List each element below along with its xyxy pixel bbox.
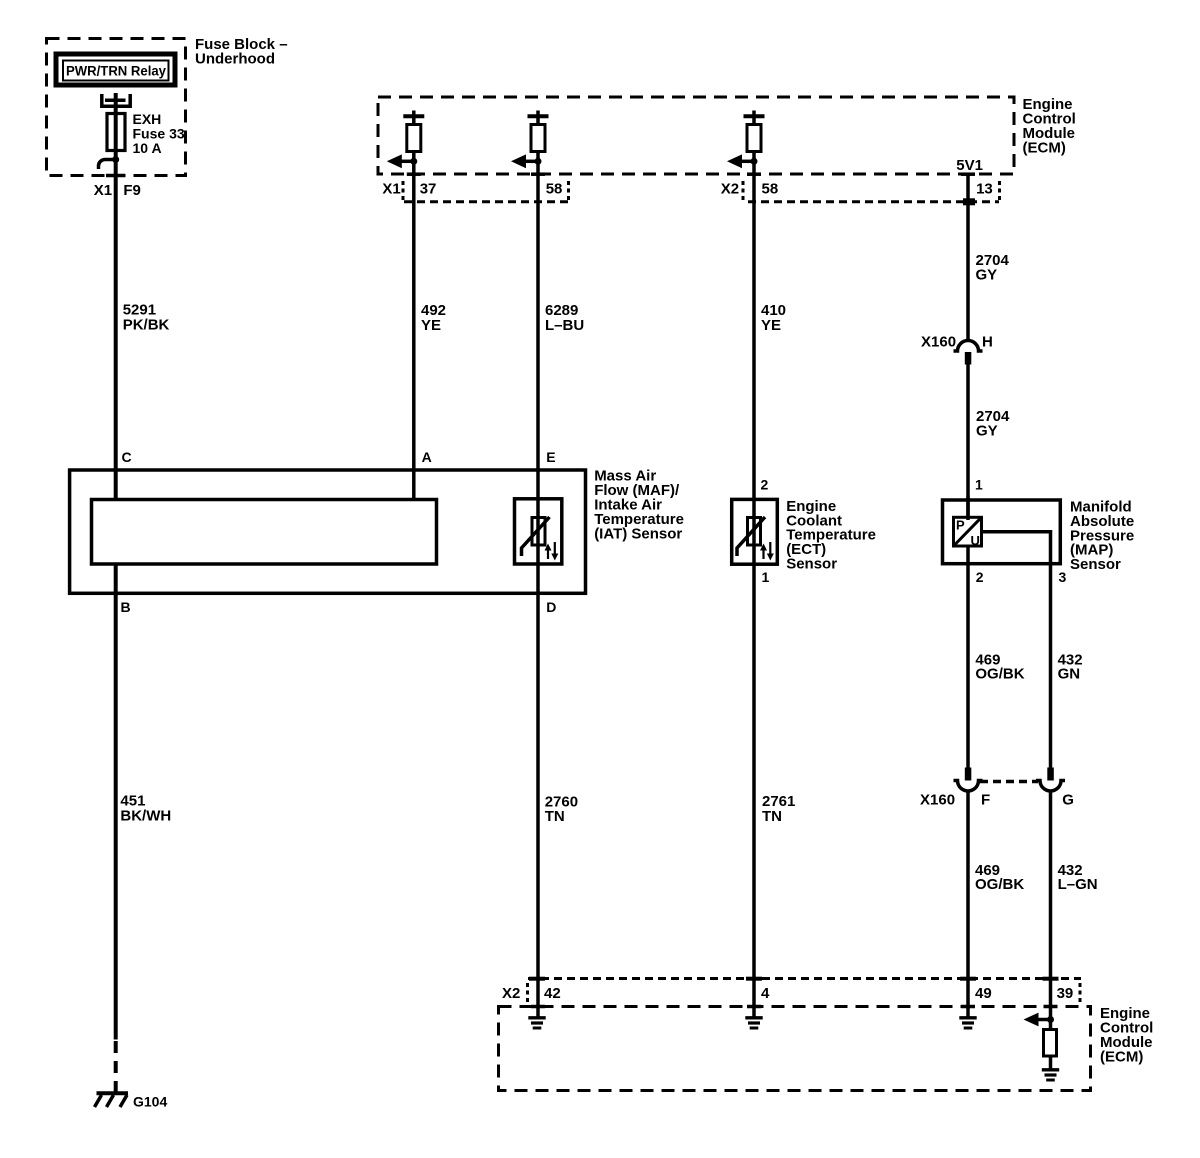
- pin 39 pull-up resistor: [1044, 1020, 1057, 1070]
- MAF pin letter C: [122, 449, 132, 465]
- ground at ECM pin 42: [528, 1018, 545, 1028]
- wire label 432 L-GN: [1058, 862, 1098, 893]
- wire dashed segment to G104: [114, 1041, 118, 1092]
- svg-text:B: B: [121, 599, 131, 615]
- MAP sensor label: [1070, 499, 1134, 574]
- junction ticks at bottom dotted line: [529, 977, 1059, 981]
- svg-text:GY: GY: [976, 423, 998, 440]
- svg-text:X2: X2: [721, 181, 739, 198]
- svg-text:4: 4: [761, 985, 770, 1002]
- wire label 469 OG/BK upper: [975, 652, 1024, 683]
- ECM bottom dashed box: [499, 1007, 1091, 1091]
- MAF pin letter D: [546, 599, 556, 615]
- connector X160 G male pin: [1047, 768, 1054, 781]
- wire 410 YE (X2-58 to ECT pin2): [752, 152, 756, 565]
- connector X160 H male pin: [965, 352, 972, 365]
- wire 2761 TN (ECT pin1 down): [752, 564, 756, 1018]
- svg-text:A: A: [422, 449, 432, 465]
- svg-text:H: H: [982, 334, 993, 351]
- wire 469 OG/BK upper (MAP pin2 to X160 F): [966, 546, 970, 768]
- fuse label EXH Fuse 33 10 A: [133, 111, 185, 156]
- wire 2704 GY lower (X160 H to MAP pin1): [966, 365, 970, 521]
- svg-text:E: E: [546, 449, 555, 465]
- svg-text:F9: F9: [123, 182, 141, 199]
- relay K1 PWR/TRN Relay: [56, 54, 175, 85]
- MAP sensor box: [943, 500, 1061, 564]
- fuse terminal T-bar: [105, 99, 126, 103]
- connector X160 dashed link F-G: [980, 780, 1038, 784]
- wire label 2704 GY: [976, 252, 1010, 284]
- svg-text:C: C: [122, 449, 132, 465]
- pin row labels X1 37 58 X2 58 13: [382, 181, 992, 198]
- wire label 2761 TN: [762, 793, 795, 825]
- svg-text:L–BU: L–BU: [545, 317, 584, 334]
- driver U1 resistor + T-bar (pin 37): [403, 111, 424, 152]
- svg-text:1: 1: [762, 569, 770, 585]
- svg-text:PWR/TRN Relay: PWR/TRN Relay: [66, 64, 166, 79]
- svg-text:49: 49: [975, 985, 992, 1002]
- wire 2760 TN (MAF D down): [536, 564, 540, 1018]
- MAP internal wire to pin 3: [983, 532, 1051, 565]
- connector X160 F male pin: [965, 768, 972, 781]
- MAF pin letter E: [546, 449, 555, 465]
- svg-text:10 A: 10 A: [133, 140, 162, 156]
- ECT pin 1 label: [762, 569, 770, 585]
- MAF sensor label: [594, 468, 684, 543]
- fuse F33 EXH body: [107, 114, 125, 151]
- MAP pin 2 label: [976, 569, 984, 585]
- svg-text:58: 58: [546, 181, 563, 198]
- ticks at ECM pin exits: [407, 172, 975, 176]
- wire label 451 BK/WH: [120, 793, 171, 825]
- ECT pin 2 label: [761, 477, 769, 493]
- ECT thermistor arrows: [760, 542, 774, 561]
- connector X160 F female arc: [954, 781, 983, 792]
- MAP P/U transducer box: [954, 517, 982, 548]
- svg-text:13: 13: [976, 181, 993, 198]
- fuse block label: [195, 36, 288, 68]
- svg-text:BK/WH: BK/WH: [120, 808, 171, 825]
- tick at fuse block exit: [106, 174, 125, 178]
- junction dot pin13 at dotted line: [963, 198, 975, 205]
- wire 432 L-GN lower (X160 G to ECM 39): [1049, 792, 1053, 1020]
- ground at pin 39 resistor: [1042, 1070, 1059, 1080]
- wire label 6289 L-BU: [545, 302, 584, 334]
- wire 432 GN upper (MAP pin3 to X160 G): [1049, 565, 1053, 768]
- bottom pin labels X2 42 4 49 39: [502, 985, 1073, 1002]
- svg-text:TN: TN: [545, 808, 565, 825]
- 5V1 net label: [956, 157, 983, 174]
- svg-text:Sensor: Sensor: [1070, 556, 1121, 573]
- MAF pin letter B: [121, 599, 131, 615]
- svg-text:5V1: 5V1: [956, 157, 983, 174]
- driver U2 resistor + T-bar (pin 58 X1): [528, 111, 549, 152]
- bottom connector X2 dotted line: [528, 977, 1081, 980]
- junction at fuse hook: [112, 156, 119, 163]
- ground at ECM pin 49: [959, 1018, 976, 1028]
- driver U3 resistor + T-bar (pin 58 X2): [744, 111, 765, 152]
- svg-text:GY: GY: [976, 267, 998, 284]
- wire label 492 YE: [421, 302, 446, 334]
- driver U1 arrow (pin 37): [387, 154, 418, 168]
- svg-text:42: 42: [544, 985, 561, 1002]
- IAT thermistor arrows: [545, 542, 559, 561]
- svg-text:Sensor: Sensor: [786, 556, 837, 573]
- driver U2 arrow: [511, 154, 542, 168]
- svg-text:U: U: [971, 533, 980, 548]
- pin 39 arrow inside ECM: [1024, 1013, 1055, 1027]
- wire label 432 GN: [1058, 652, 1083, 683]
- svg-text:X1: X1: [94, 182, 112, 199]
- svg-text:OG/BK: OG/BK: [975, 876, 1024, 893]
- svg-text:G: G: [1062, 792, 1074, 809]
- svg-text:GN: GN: [1058, 666, 1081, 683]
- fuse holder cup: [102, 94, 130, 106]
- ECT sensor box: [732, 499, 778, 564]
- connector X160 G female arc: [1036, 781, 1065, 792]
- fuse block underhood dashed box: [47, 39, 186, 176]
- svg-text:F: F: [981, 792, 990, 809]
- wire label 2760 TN: [545, 793, 578, 825]
- svg-text:YE: YE: [421, 317, 441, 334]
- connector X160 H labels: [921, 334, 993, 351]
- pin row dotted separators: [403, 181, 1000, 203]
- svg-text:PK/BK: PK/BK: [123, 317, 170, 334]
- svg-text:X2: X2: [502, 985, 520, 1002]
- svg-text:(ECM): (ECM): [1023, 140, 1066, 157]
- ECM top dashed box: [378, 97, 1014, 174]
- svg-text:TN: TN: [762, 808, 782, 825]
- svg-text:(IAT) Sensor: (IAT) Sensor: [594, 525, 682, 542]
- wire 5291 PK/BK (left vertical): [114, 160, 118, 501]
- ticks at bottom ECM pin entries: [531, 1005, 1058, 1009]
- IAT thermistor box: [515, 499, 562, 564]
- svg-text:X1: X1: [382, 181, 400, 198]
- ground G104: [95, 1093, 129, 1107]
- ECT sensor label: [786, 498, 876, 573]
- svg-text:39: 39: [1057, 985, 1074, 1002]
- MAP pin 3 label: [1059, 569, 1067, 585]
- ECM top label: [1023, 96, 1076, 157]
- ECT thermistor resistor + diagonal: [737, 517, 765, 556]
- ground at ECM pin 4: [745, 1018, 762, 1028]
- svg-text:G104: G104: [133, 1094, 167, 1110]
- wire 6289 L-BU (pin58 to MAF E): [536, 152, 540, 565]
- wire from relay to fuse: [114, 93, 118, 160]
- wire 492 YE (pin37 to MAF A): [412, 152, 416, 501]
- wire label 469 OG/BK lower: [975, 862, 1024, 893]
- MAP pin 1 label: [975, 477, 983, 493]
- ground G104 label: [133, 1094, 167, 1110]
- svg-text:2: 2: [761, 477, 769, 493]
- connector X2 dotted line: [748, 200, 999, 203]
- wire 2704 GY upper (pin13 to X160 H): [966, 173, 970, 340]
- svg-text:(ECM): (ECM): [1100, 1049, 1143, 1066]
- svg-text:Underhood: Underhood: [195, 51, 275, 68]
- bottom connector separators: [528, 983, 1081, 1003]
- driver U3 arrow: [727, 154, 758, 168]
- connector X1 F9 labels: [94, 182, 141, 199]
- svg-text:3: 3: [1059, 569, 1067, 585]
- MAF IAT sensor outer box: [70, 470, 586, 593]
- svg-text:2: 2: [976, 569, 984, 585]
- wire label 410 YE: [761, 302, 786, 334]
- svg-text:D: D: [546, 599, 556, 615]
- MAF pin letter A: [422, 449, 432, 465]
- svg-text:1: 1: [975, 477, 983, 493]
- svg-text:X160: X160: [920, 792, 955, 809]
- svg-text:P: P: [956, 518, 965, 533]
- MAF inner body box: [92, 500, 437, 565]
- connector X160 H female arc: [954, 341, 983, 351]
- ECM bottom label: [1100, 1005, 1153, 1066]
- wire pin1 into P/U: [966, 497, 970, 518]
- svg-text:YE: YE: [761, 317, 781, 334]
- svg-text:L–GN: L–GN: [1058, 876, 1098, 893]
- svg-text:X160: X160: [921, 334, 956, 351]
- wire 451 BK/WH (MAF B down): [114, 565, 118, 1040]
- IAT thermistor resistor + diagonal: [522, 517, 550, 556]
- connector X160 F G labels: [920, 792, 1074, 809]
- svg-text:58: 58: [762, 181, 779, 198]
- wire 469 OG/BK lower (X160 F to ECM 49): [966, 792, 970, 1018]
- svg-text:OG/BK: OG/BK: [975, 666, 1024, 683]
- connector X1 dotted line: [404, 200, 570, 203]
- wire label 2704 GY lower: [976, 408, 1010, 440]
- fuse clip hook: [99, 160, 116, 170]
- wire label 5291 PK/BK: [123, 302, 170, 334]
- svg-text:37: 37: [420, 181, 437, 198]
